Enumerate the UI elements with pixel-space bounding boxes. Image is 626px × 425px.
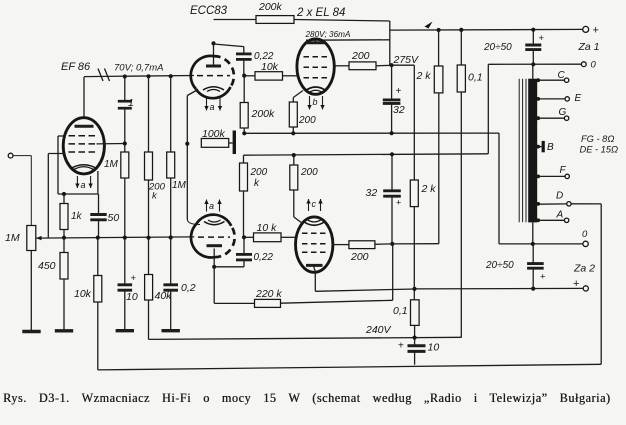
svg-text:G: G [559, 107, 567, 118]
svg-text:10: 10 [126, 291, 138, 303]
svg-text:k: k [254, 178, 260, 189]
svg-text:200: 200 [298, 115, 316, 126]
svg-text:1M: 1M [104, 159, 119, 170]
svg-text:+: + [573, 278, 579, 290]
svg-text:+: + [131, 273, 137, 284]
svg-text:+: + [539, 33, 545, 44]
svg-text:1: 1 [128, 97, 134, 109]
svg-text:450: 450 [38, 260, 56, 272]
svg-text:+: + [396, 198, 401, 208]
svg-text:F: F [560, 165, 567, 176]
svg-text:2 x EL 84: 2 x EL 84 [296, 7, 345, 19]
svg-text:c: c [312, 199, 317, 209]
svg-text:200: 200 [250, 167, 268, 178]
svg-text:A: A [556, 210, 564, 221]
svg-text:D: D [556, 191, 563, 202]
svg-text:32: 32 [393, 104, 405, 116]
svg-text:200: 200 [148, 182, 166, 193]
svg-text:40k: 40k [155, 290, 173, 302]
svg-text:0,1: 0,1 [468, 72, 483, 84]
svg-text:10: 10 [428, 342, 440, 354]
svg-text:B: B [547, 142, 554, 153]
svg-text:0: 0 [582, 229, 588, 240]
svg-text:20÷50: 20÷50 [483, 42, 512, 53]
svg-text:70V; 0,7mA: 70V; 0,7mA [114, 63, 163, 74]
svg-text:+: + [398, 341, 404, 352]
svg-text:100k: 100k [202, 128, 226, 140]
svg-text:280V; 36mA: 280V; 36mA [305, 30, 351, 39]
svg-text:+: + [540, 272, 546, 283]
svg-text:200: 200 [351, 50, 370, 62]
svg-text:32: 32 [366, 187, 378, 199]
svg-text:220 k: 220 k [255, 288, 282, 300]
svg-text:Za 2: Za 2 [573, 263, 595, 275]
svg-text:+: + [593, 25, 599, 37]
svg-text:a: a [210, 102, 215, 112]
svg-text:200: 200 [300, 167, 318, 178]
svg-text:EF 86: EF 86 [61, 61, 91, 73]
svg-text:200k: 200k [251, 108, 276, 120]
svg-text:200: 200 [350, 251, 369, 263]
svg-text:1M: 1M [172, 180, 187, 191]
svg-text:10k: 10k [261, 61, 279, 73]
svg-text:C: C [558, 70, 566, 81]
svg-text:275V: 275V [393, 54, 420, 66]
svg-text:1k: 1k [71, 211, 83, 222]
svg-text:ECC83: ECC83 [190, 5, 228, 17]
svg-text:20÷50: 20÷50 [485, 260, 514, 271]
svg-text:0,2: 0,2 [181, 282, 196, 294]
svg-text:a: a [81, 180, 86, 190]
svg-text:10 k: 10 k [257, 222, 278, 234]
svg-text:2 k: 2 k [421, 183, 437, 195]
svg-text:10k: 10k [74, 288, 92, 300]
svg-text:2 k: 2 k [416, 70, 432, 82]
svg-text:0,1: 0,1 [393, 305, 408, 317]
svg-text:a: a [209, 201, 214, 211]
svg-text:DE - 15Ω: DE - 15Ω [580, 145, 619, 155]
svg-text:+: + [396, 86, 402, 97]
svg-text:200k: 200k [258, 1, 283, 13]
svg-text:50: 50 [108, 212, 120, 224]
svg-text:240V: 240V [365, 324, 392, 336]
svg-text:0,22: 0,22 [254, 252, 274, 263]
svg-text:FG - 8Ω: FG - 8Ω [581, 134, 614, 144]
svg-text:Za 1: Za 1 [578, 41, 600, 53]
svg-text:b: b [313, 97, 318, 107]
svg-text:E: E [575, 93, 582, 104]
svg-text:0: 0 [591, 60, 597, 71]
svg-text:1M: 1M [5, 232, 20, 244]
